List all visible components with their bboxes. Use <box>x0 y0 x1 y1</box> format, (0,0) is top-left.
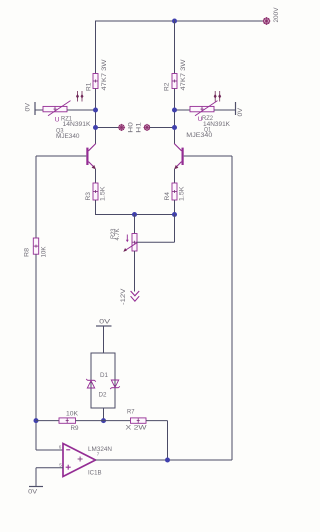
svg-text:10K: 10K <box>41 246 48 257</box>
wire right rail upper <box>174 21 176 74</box>
node R9 branch <box>34 418 39 423</box>
node RZ1 / rail <box>93 108 98 113</box>
svg-text:MJE340: MJE340 <box>186 132 212 139</box>
svg-text:0V: 0V <box>28 489 38 496</box>
power terminal 200V <box>263 7 281 25</box>
svg-text:R2: R2 <box>164 82 171 91</box>
supply -12V <box>120 287 139 305</box>
svg-text:R8: R8 <box>24 248 31 257</box>
svg-text:D1: D1 <box>100 372 108 379</box>
wire rail to trimmer R23 <box>134 215 136 234</box>
svg-text:X 2W: X 2W <box>126 425 148 432</box>
marks above RZ1 <box>76 91 84 102</box>
varistor RZ1 <box>43 101 91 128</box>
node H1 / right rail <box>172 125 177 130</box>
wire Q3 emitter to R3 <box>95 169 97 183</box>
svg-text:U: U <box>55 117 60 124</box>
wire left rail below R1 <box>95 89 97 144</box>
wire top bus <box>96 20 264 22</box>
wire Q1 base <box>184 155 232 157</box>
wire pin H1 to right rail <box>150 127 175 129</box>
svg-text:47K7 3W: 47K7 3W <box>180 59 187 91</box>
wire output to Q1 base rail <box>231 156 233 460</box>
wire rail to R9 <box>36 420 59 422</box>
wire Q3 base <box>36 155 86 157</box>
resistor R4 <box>164 183 186 201</box>
pin H0 <box>118 121 134 132</box>
transistor Q3 <box>56 127 96 169</box>
terminal 0V left <box>25 102 35 115</box>
wire left rail to pin H0 <box>96 127 119 129</box>
svg-text:0V: 0V <box>237 107 244 116</box>
node output / R7 branch <box>165 458 170 463</box>
wire R9 to R7 <box>76 420 131 422</box>
diode D1 <box>86 372 108 388</box>
svg-text:R7: R7 <box>127 408 135 415</box>
svg-text:D2: D2 <box>99 392 107 399</box>
resistor R9 <box>59 410 79 432</box>
resistor R1 <box>86 59 108 91</box>
svg-text:0V: 0V <box>25 102 32 111</box>
svg-text:MJE340: MJE340 <box>56 133 80 140</box>
wire R8 to op-amp input <box>36 254 63 450</box>
trimmer R23 <box>110 228 137 252</box>
svg-text:1.5K: 1.5K <box>100 186 107 201</box>
wire op-amp noninverting input to 0V <box>36 468 63 487</box>
svg-text:5: 5 <box>59 463 62 468</box>
resistor R3 <box>85 183 107 201</box>
marks above RZ2 <box>214 91 222 102</box>
terminal 0V top of clamp <box>96 319 112 327</box>
ground 0V op-amp <box>28 487 43 496</box>
svg-text:H0: H0 <box>127 121 134 132</box>
svg-text:LM324N: LM324N <box>88 446 112 453</box>
svg-text:7: 7 <box>97 452 100 457</box>
pin H1 <box>136 121 151 132</box>
wire R7 to output node <box>146 421 168 460</box>
wire right rail below R2 <box>174 89 176 144</box>
node top bus / R2 rail junction <box>172 19 177 24</box>
resistor R2 <box>164 59 187 91</box>
wire R3 to bottom rail <box>96 200 136 215</box>
svg-text:R9: R9 <box>71 425 79 432</box>
resistor R7 <box>126 408 148 431</box>
wire trimmer to -12V <box>134 251 136 292</box>
wire 0V to clamp box <box>103 326 105 353</box>
resistor R8 <box>24 238 48 258</box>
svg-text:R3: R3 <box>85 192 92 201</box>
wire Q3 base rail down <box>35 156 37 238</box>
wire wiper to right branch <box>137 215 175 243</box>
diode D2 <box>99 380 120 399</box>
terminal 0V right <box>236 102 245 117</box>
svg-text:H1: H1 <box>136 121 143 132</box>
node clamp / resistor row <box>101 418 106 423</box>
wire R4 to bottom rail <box>135 200 175 215</box>
wire clamp box to resistor row <box>103 408 105 421</box>
wire clamp box <box>91 353 115 408</box>
svg-text:14N391K: 14N391K <box>63 121 91 128</box>
transistor Q1 <box>174 127 212 170</box>
node H0 / left rail <box>93 125 98 130</box>
wire left rail upper <box>95 21 97 74</box>
svg-text:4.7K: 4.7K <box>114 228 121 241</box>
svg-text:0V: 0V <box>99 319 111 326</box>
svg-text:R1: R1 <box>86 82 93 91</box>
wire op-amp output <box>96 459 233 461</box>
wire right rail to RZ2 <box>175 109 191 111</box>
wire RZ1 to left rail <box>67 109 96 111</box>
node trimmer top <box>132 212 137 217</box>
svg-text:IC1B: IC1B <box>88 470 102 477</box>
op-amp IC1B <box>59 444 112 477</box>
varistor RZ2 <box>190 101 230 128</box>
svg-text:6: 6 <box>59 445 62 450</box>
node R4 / wiper branch <box>172 212 177 217</box>
wire RZ2 to 0V right <box>214 109 235 111</box>
svg-text:10K: 10K <box>66 410 78 417</box>
svg-text:R4: R4 <box>164 192 171 201</box>
svg-text:1.5K: 1.5K <box>179 186 186 201</box>
svg-text:200V: 200V <box>273 7 280 23</box>
node RZ2 / rail <box>172 108 177 113</box>
svg-text:47K7 3W: 47K7 3W <box>101 59 108 91</box>
wire 0V to RZ1 <box>35 109 43 111</box>
svg-text:-12V: -12V <box>120 287 127 305</box>
wire Q1 emitter to R4 <box>174 169 176 183</box>
